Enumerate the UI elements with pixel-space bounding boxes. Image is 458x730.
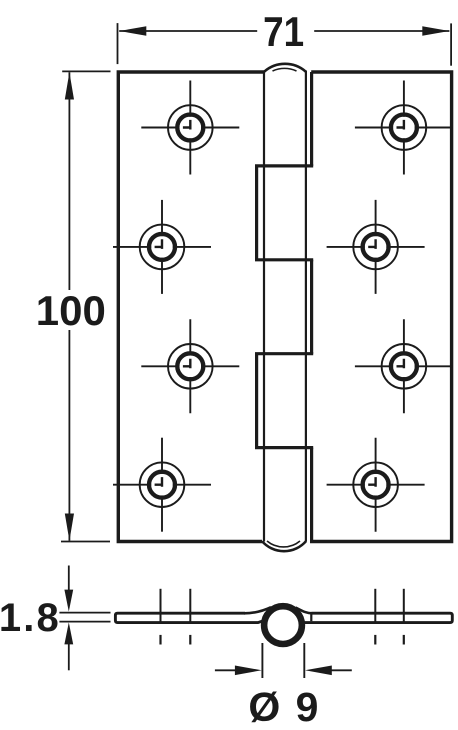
svg-text:1.8: 1.8 xyxy=(0,596,59,640)
svg-text:100: 100 xyxy=(36,287,106,334)
svg-text:71: 71 xyxy=(263,8,304,55)
svg-text:Ø 9: Ø 9 xyxy=(248,684,318,730)
